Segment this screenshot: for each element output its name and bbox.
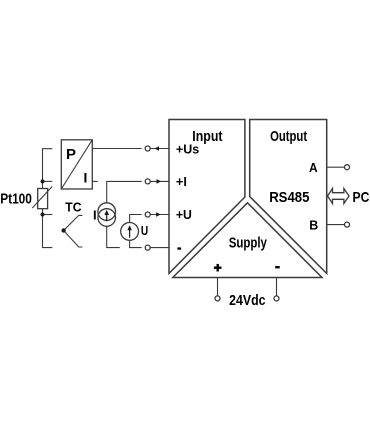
svg-text:U: U [141,223,148,238]
svg-text:+I: +I [176,174,187,189]
svg-text:+U: +U [176,207,192,222]
svg-text:TC: TC [65,199,82,214]
svg-text:Pt100: Pt100 [0,190,32,207]
svg-text:Output: Output [270,128,307,145]
svg-text:A: A [309,160,318,175]
svg-text:P: P [66,146,76,163]
svg-text:+Us: +Us [176,142,199,157]
svg-text:RS485: RS485 [269,189,309,206]
svg-text:I: I [93,207,97,222]
svg-text:Supply: Supply [229,235,268,252]
svg-text:I: I [84,170,88,186]
svg-text:PC: PC [353,189,370,206]
svg-text:B: B [309,217,318,232]
svg-text:24Vdc: 24Vdc [229,292,265,309]
